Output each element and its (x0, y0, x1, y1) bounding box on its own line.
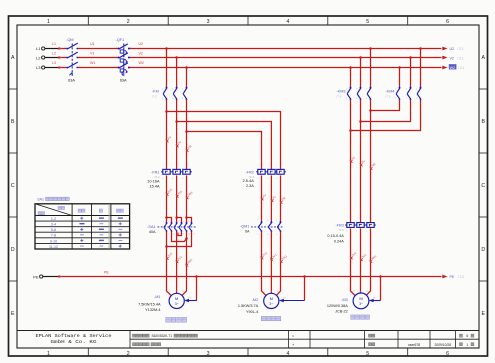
svg-text:1: 1 (163, 221, 164, 223)
svg-text:0.24A: 0.24A (334, 239, 344, 243)
wire label 3U (350, 160, 352, 162)
svg-text:3-4: 3-4 (51, 223, 56, 227)
svg-text:15.4A: 15.4A (150, 184, 160, 188)
svg-text:1.5KW/3.7A: 1.5KW/3.7A (238, 304, 259, 308)
svg-text:B: B (481, 119, 485, 125)
wire FR3 out1 to M3 (351, 228, 356, 295)
wire KM3 pole3 down (370, 100, 372, 223)
svg-text:C: C (11, 183, 15, 189)
wire M1 PE tap (195, 275, 198, 278)
title block drawing no (369, 334, 372, 337)
svg-text:/ 2.2: / 2.2 (458, 275, 464, 279)
svg-text:120W/0.38A: 120W/0.38A (327, 304, 348, 308)
svg-text:-KM3: -KM3 (336, 90, 345, 94)
wire L2 black stub (45, 57, 58, 59)
svg-text:PE: PE (104, 270, 109, 274)
node SA1 W / cross (185, 237, 188, 240)
node tap KM-L2 (175, 56, 178, 59)
svg-text:-FR3: -FR3 (335, 223, 343, 227)
wire FR2 pole3 down (280, 175, 282, 221)
svg-text:PE: PE (33, 275, 39, 280)
wire QM1 out2 to M2 (270, 232, 272, 294)
node tap KM3-L2 (359, 56, 362, 59)
wire L3 black stub (45, 67, 58, 69)
svg-text:9-10: 9-10 (50, 239, 57, 243)
svg-text:/ 2.1: / 2.1 (458, 47, 464, 51)
title block pages (460, 334, 463, 337)
node branch1 (165, 110, 168, 113)
wire SA1 out W to M1 (182, 231, 187, 295)
svg-text:E: E (11, 311, 15, 317)
svg-text:GmbH & Co. KG: GmbH & Co. KG (51, 339, 97, 345)
svg-text:W2: W2 (139, 61, 144, 65)
svg-text:-FR1: -FR1 (151, 170, 159, 174)
wire label 3U1 (350, 257, 352, 259)
name M3 chinese (351, 315, 355, 319)
svg-text:V1: V1 (90, 52, 94, 56)
svg-text:Y90L-4: Y90L-4 (246, 310, 258, 314)
svg-text:7.5KW/15.4A: 7.5KW/15.4A (138, 302, 161, 306)
wire L1 main (58, 48, 66, 50)
interruption arrow PE (442, 275, 447, 279)
svg-text:/7.4: /7.4 (336, 95, 341, 99)
svg-text:12: 12 (193, 234, 195, 236)
table header contact/position (58, 206, 61, 209)
svg-text:1: 1 (47, 19, 50, 25)
svg-text:EPLAN Software & Service: EPLAN Software & Service (36, 333, 112, 339)
svg-text:V2: V2 (450, 56, 454, 60)
interruption arrow U2 (442, 47, 447, 51)
svg-text:5-6: 5-6 (51, 228, 56, 232)
wire label 1W (186, 149, 188, 151)
svg-text:7-8: 7-8 (51, 234, 56, 238)
svg-text:JCB-22: JCB-22 (335, 309, 348, 313)
wire label 2V1b (271, 258, 273, 260)
node tap KM3-L1 (369, 47, 372, 50)
interruption arrow W2 (442, 66, 447, 70)
svg-text:L1: L1 (52, 42, 56, 46)
svg-text:7: 7 (178, 221, 179, 223)
motor M2 symbol (264, 293, 279, 308)
node branch2 (175, 120, 178, 123)
wire label 2V (271, 199, 273, 201)
wire L3 main (58, 67, 66, 69)
wire QM1 out3 to M2 (276, 232, 280, 296)
svg-text:8: 8 (183, 234, 184, 236)
wire label 2W (280, 201, 282, 203)
wire SA1 out V to M1 (176, 231, 178, 293)
wire M2 PE entry (280, 300, 305, 302)
wire FR1-SA1 pole3 (186, 175, 188, 217)
node merge1 (369, 109, 372, 112)
svg-text:B: B (11, 119, 15, 125)
switch SA1 input jumpers (165, 216, 168, 219)
svg-text:-KM4: -KM4 (385, 90, 394, 94)
wire label 3V (360, 164, 362, 166)
svg-text:C: C (481, 183, 485, 189)
wire branch1 to QM1 circuit (167, 112, 281, 171)
svg-text:/7.5: /7.5 (385, 95, 390, 99)
svg-text:4: 4 (286, 19, 289, 25)
contactor KM contacts (166, 87, 168, 89)
svg-text:W2: W2 (450, 66, 455, 70)
wire SA1 cross a (172, 231, 187, 241)
svg-text:/9.6: /9.6 (339, 228, 344, 232)
thermal overload FR1 (163, 169, 170, 174)
node tap KM-L3 (185, 66, 188, 69)
table header forward (78, 209, 81, 212)
svg-text:L1: L1 (36, 46, 41, 51)
svg-text:3~: 3~ (359, 302, 363, 306)
interruption arrow V2 (442, 56, 447, 60)
svg-text:11-12: 11-12 (49, 245, 58, 249)
wire KM3 pole2 down (360, 100, 362, 223)
wire PE black stub (43, 276, 58, 278)
svg-text:L2: L2 (52, 52, 56, 56)
wire label 2V1 (176, 260, 178, 262)
wire label 2W1 (186, 264, 188, 266)
svg-text:6A: 6A (245, 229, 250, 233)
wire label 1U1 (166, 193, 168, 195)
wire drop KM4 pole1 (399, 68, 401, 88)
wire L2 main (58, 57, 66, 59)
svg-text:A: A (481, 55, 485, 61)
wire M1 PE entry (185, 300, 197, 302)
table grid (35, 204, 130, 249)
wire label 3V1 (360, 258, 362, 260)
wire M3 PE tap (379, 275, 382, 278)
svg-text:3~: 3~ (175, 302, 179, 306)
wire drop KM3 pole3 (370, 49, 372, 88)
svg-text:10-16A: 10-16A (147, 180, 160, 184)
wire drop KM4 pole2 (410, 58, 412, 88)
node SA1 U / loop (165, 245, 168, 248)
wire SA1 cross b (178, 231, 182, 235)
node tap KM3-L3 (349, 66, 352, 69)
svg-text:/ 2.1: / 2.1 (458, 66, 464, 70)
node merge2 (359, 120, 362, 123)
svg-text:L2: L2 (36, 56, 41, 61)
svg-text:M: M (175, 296, 178, 301)
contactor KM3 contacts (350, 87, 352, 89)
svg-text:-FR2: -FR2 (245, 170, 253, 174)
thermal overload FR3 (347, 223, 354, 228)
svg-text:A: A (11, 55, 15, 61)
wire L1 black stub (45, 48, 58, 50)
svg-text:2: 2 (127, 351, 130, 357)
svg-text:2: 2 (127, 19, 130, 25)
frame column dividers (87, 16, 89, 25)
title block grid (17, 330, 479, 332)
title block project desc (133, 334, 136, 337)
frame row dividers (9, 88, 18, 90)
wire drop KM pole2 (176, 58, 178, 88)
wire FR2 pole2 down (270, 175, 272, 221)
wire FR3 out3 to M3 (366, 228, 370, 295)
wire label 1V1 (176, 195, 178, 197)
wire SA1 out U to M1 (167, 231, 172, 295)
switch SA1 linkage (158, 226, 197, 228)
wire label 3W1 (370, 260, 372, 262)
svg-text:1: 1 (466, 343, 468, 347)
node tap KM-L1 (165, 47, 168, 50)
svg-text:-QM: -QM (66, 38, 73, 42)
svg-text:63A: 63A (68, 79, 75, 83)
circuit breaker QF1 linkage (123, 44, 125, 72)
svg-text:L3: L3 (36, 65, 41, 70)
wire M2 PE tap (303, 275, 306, 278)
svg-text:U1: U1 (90, 42, 95, 46)
svg-text:D: D (11, 247, 15, 253)
svg-text:-SA1: -SA1 (147, 225, 155, 229)
svg-text:D: D (481, 247, 485, 253)
svg-text:/8.2: /8.2 (154, 175, 159, 179)
svg-text:40A: 40A (149, 230, 156, 234)
wire drop KM pole1 (166, 49, 168, 88)
switch QM1 contacts (261, 221, 263, 223)
wire label 2U1 (166, 257, 168, 259)
svg-text:4: 4 (173, 234, 174, 236)
svg-text:-M1: -M1 (154, 295, 161, 299)
svg-text:PE: PE (450, 275, 455, 279)
wire KM pole3 down (186, 100, 188, 170)
wire branch3 to QM1 circuit (187, 132, 262, 171)
svg-text:SA1: SA1 (37, 197, 44, 201)
svg-text:2.5-4A: 2.5-4A (243, 179, 255, 183)
svg-text:M: M (359, 296, 362, 301)
thermal overload FR2 (258, 169, 265, 174)
table header stop (99, 209, 102, 212)
svg-text:E: E (481, 311, 485, 317)
wire KM pole2 down (176, 100, 178, 170)
svg-text:4: 4 (286, 351, 289, 357)
svg-text:6: 6 (178, 234, 179, 236)
wire label 2U1 (261, 257, 263, 259)
wire QM1 out1 to M2 (262, 232, 267, 296)
svg-text:2: 2 (168, 234, 169, 236)
svg-text:/9.3: /9.3 (249, 175, 254, 179)
wire KM3 pole1 down (350, 100, 352, 223)
node tap KM4-L3 (398, 66, 401, 69)
table header reverse (116, 209, 119, 212)
svg-text:9: 9 (183, 221, 184, 223)
wire FR1-SA1 pole2 (176, 175, 178, 217)
svg-text:-QM1: -QM1 (240, 225, 250, 229)
svg-text:/7.2: /7.2 (152, 95, 157, 99)
wire drop KM3 pole2 (360, 58, 362, 88)
svg-text:2009/10/28: 2009/10/28 (435, 343, 452, 347)
svg-text:3: 3 (168, 221, 169, 223)
motor M3 symbol (353, 293, 369, 309)
wire M3 PE entry (370, 300, 381, 302)
svg-text:3~: 3~ (269, 302, 273, 306)
switch SA1 contacts (166, 222, 168, 224)
svg-text:5: 5 (366, 19, 369, 25)
wire KM pole1 down (166, 100, 168, 170)
node branch3 (185, 130, 188, 133)
wire drop KM4 pole3 (420, 49, 422, 88)
contactor KM4 contacts (399, 87, 401, 89)
svg-text:Y132M-4: Y132M-4 (145, 308, 160, 312)
svg-text:1-2: 1-2 (51, 217, 56, 221)
wire PE main (58, 276, 442, 278)
svg-text:L3: L3 (52, 61, 56, 65)
circuit breaker QF1 poles (118, 48, 120, 50)
title block page desc (133, 343, 136, 346)
wire FR2 pole1 down (261, 175, 263, 221)
wire label 2W1b (280, 260, 282, 262)
svg-text:U2: U2 (450, 47, 455, 51)
svg-text:6: 6 (466, 334, 468, 338)
wire FR3 out2 to M3 (360, 228, 362, 293)
svg-text:3: 3 (207, 351, 210, 357)
name M1 chinese (166, 317, 171, 322)
svg-text:S620/532K-T1: S620/532K-T1 (152, 334, 173, 338)
wire drop KM3 pole1 (350, 68, 352, 88)
svg-text:11: 11 (187, 221, 189, 223)
svg-text:-QF1: -QF1 (116, 38, 125, 42)
wire label 1U (166, 140, 168, 142)
svg-text:-KM: -KM (152, 90, 159, 94)
svg-text:10: 10 (188, 234, 190, 236)
svg-text:6: 6 (446, 19, 449, 25)
wire FR1-SA1 pole1 (166, 175, 168, 217)
wire SA1 cross c (167, 231, 192, 246)
svg-text:2.3A: 2.3A (246, 184, 254, 188)
wire label 1V (176, 145, 178, 147)
svg-text:-M3: -M3 (341, 298, 348, 302)
wire branch2 to QM1 circuit (177, 122, 272, 171)
svg-text:V2: V2 (139, 52, 143, 56)
wire label 3W (370, 167, 372, 169)
svg-text:6: 6 (446, 351, 449, 357)
svg-text:63A: 63A (120, 79, 127, 83)
svg-text:user678: user678 (408, 343, 420, 347)
svg-text:M: M (270, 296, 273, 301)
motor M1 symbol (169, 293, 184, 308)
disconnect switch QM (66, 48, 68, 50)
name M2 chinese (261, 316, 265, 321)
wire KM4 link2 (361, 100, 411, 122)
wire drop KM pole3 (186, 68, 188, 88)
wire KM4 link3 (351, 100, 421, 131)
title block designer (369, 343, 372, 346)
svg-text:5: 5 (366, 351, 369, 357)
node tap KM4-L1 (419, 47, 422, 50)
svg-text:0.15-0.4A: 0.15-0.4A (327, 234, 344, 238)
node tap KM4-L2 (409, 56, 412, 59)
svg-text:1: 1 (47, 351, 50, 357)
wire label 2U (261, 198, 263, 200)
svg-text:/ 2.1: / 2.1 (458, 56, 464, 60)
svg-text:-M2: -M2 (252, 298, 259, 302)
svg-text:W1: W1 (90, 61, 95, 65)
svg-text:5: 5 (173, 221, 174, 223)
svg-text:U2: U2 (139, 42, 144, 46)
wire KM4 link1 (371, 100, 400, 111)
wire label 1W1 (186, 196, 188, 198)
node merge3 (349, 129, 352, 132)
svg-text:3: 3 (207, 19, 210, 25)
